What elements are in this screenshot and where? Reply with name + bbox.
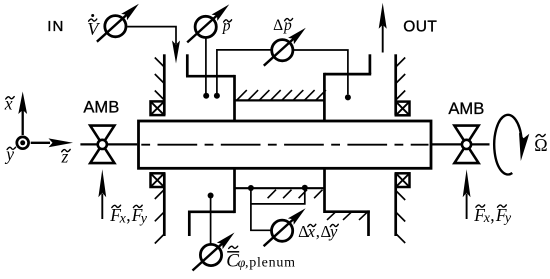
svg-text:Ω: Ω bbox=[534, 135, 547, 155]
wire Delta-y tap bbox=[251, 188, 305, 204]
displacement sensor Delta-x-tilde Delta-y-tilde bbox=[272, 220, 293, 241]
inlet outer wall upper-left bbox=[163, 54, 166, 115]
chamber bottom lower-left bbox=[189, 210, 234, 213]
AMB left symbol bbox=[90, 126, 114, 145]
tap node Delta-p left bbox=[214, 93, 220, 99]
svg-text:AMB: AMB bbox=[448, 99, 484, 118]
svg-text:IN: IN bbox=[47, 18, 64, 35]
wire Delta-p right tap bbox=[293, 50, 348, 94]
shaft (rotor) bbox=[139, 121, 432, 168]
outer wall lower-left bbox=[163, 173, 166, 236]
tap node C-plenum bbox=[208, 193, 214, 199]
svg-text:,: , bbox=[316, 222, 320, 241]
inlet flow arrow IN bbox=[172, 41, 180, 64]
svg-text:,: , bbox=[490, 205, 494, 225]
wire Delta-x tap bbox=[251, 188, 272, 230]
svg-text:,: , bbox=[126, 205, 130, 225]
AMB right symbol bbox=[454, 126, 478, 145]
hatching lower-right wall bbox=[396, 191, 406, 201]
chamber top upper-left bbox=[186, 75, 235, 78]
rotation arrow Omega-tilde ellipse bbox=[494, 115, 521, 175]
chamber top upper-right bbox=[324, 73, 371, 76]
bearing-seal box upper-left bbox=[151, 101, 165, 115]
tap node Delta-p right bbox=[345, 94, 351, 100]
wire V-sensor to inlet bbox=[127, 27, 176, 44]
drain pipe inner wall lower-right bbox=[367, 210, 370, 236]
tap node Delta-y bbox=[302, 185, 308, 191]
hatching upper-left wall bbox=[155, 58, 165, 68]
drain pipe inner wall lower-left bbox=[188, 211, 191, 237]
wire C-plenum tap bbox=[210, 197, 212, 245]
svg-text:y: y bbox=[139, 212, 148, 227]
inlet pipe inner wall upper-left bbox=[186, 54, 189, 76]
svg-text:AMB: AMB bbox=[83, 97, 119, 116]
chamber wall upper-right bbox=[323, 73, 326, 121]
chamber wall lower-left bbox=[233, 168, 236, 213]
hatching chamber bottom lower-right bbox=[327, 212, 335, 220]
hatching lower-left wall bbox=[155, 190, 165, 200]
chamber bottom lower-right bbox=[325, 210, 370, 213]
force arrow right bbox=[466, 194, 468, 220]
shaft centerline bbox=[141, 144, 428, 146]
axis x-tilde arrow bbox=[22, 110, 24, 136]
chamber wall upper-left bbox=[233, 75, 236, 121]
svg-text:OUT: OUT bbox=[403, 19, 437, 36]
AMB right support line bbox=[431, 143, 490, 145]
diff pressure sensor Delta-p-tilde bbox=[272, 40, 293, 61]
outer wall lower-right bbox=[394, 173, 397, 236]
svg-text:,plenum: ,plenum bbox=[245, 256, 296, 271]
hatching seal stator bottom bbox=[268, 190, 276, 199]
plenum sensor C-tilde-bar bbox=[200, 244, 221, 265]
outlet pipe inner wall upper-right bbox=[369, 54, 372, 74]
axis origin (y-tilde out of plane) bbox=[17, 137, 29, 149]
tap node Delta-x bbox=[248, 185, 254, 191]
svg-text:Δ: Δ bbox=[273, 17, 283, 34]
hatching seal stator top bbox=[237, 90, 247, 100]
axis z-tilde arrow bbox=[31, 142, 50, 144]
outlet outer wall upper-right bbox=[394, 54, 397, 115]
chamber wall lower-right bbox=[323, 168, 326, 213]
AMB left support line bbox=[80, 143, 137, 145]
seal stator surface top bbox=[235, 99, 325, 101]
outlet flow arrow OUT bbox=[382, 25, 384, 53]
hatching upper-right wall bbox=[396, 58, 406, 68]
flow sensor V-dot-tilde bbox=[105, 16, 126, 37]
force arrow left bbox=[101, 194, 103, 220]
tap node p bbox=[203, 93, 209, 99]
wire Delta-p left tap bbox=[217, 50, 271, 94]
pressure sensor p-tilde bbox=[195, 16, 216, 37]
bearing-seal box upper-right bbox=[396, 102, 410, 116]
svg-text:y: y bbox=[503, 211, 512, 226]
seal stator surface bottom bbox=[235, 187, 325, 189]
bearing-seal box lower-left bbox=[151, 173, 165, 187]
wire p-sensor tap bbox=[205, 38, 207, 94]
rotation arrow head bbox=[519, 133, 529, 161]
bearing-seal box lower-right bbox=[396, 173, 410, 187]
